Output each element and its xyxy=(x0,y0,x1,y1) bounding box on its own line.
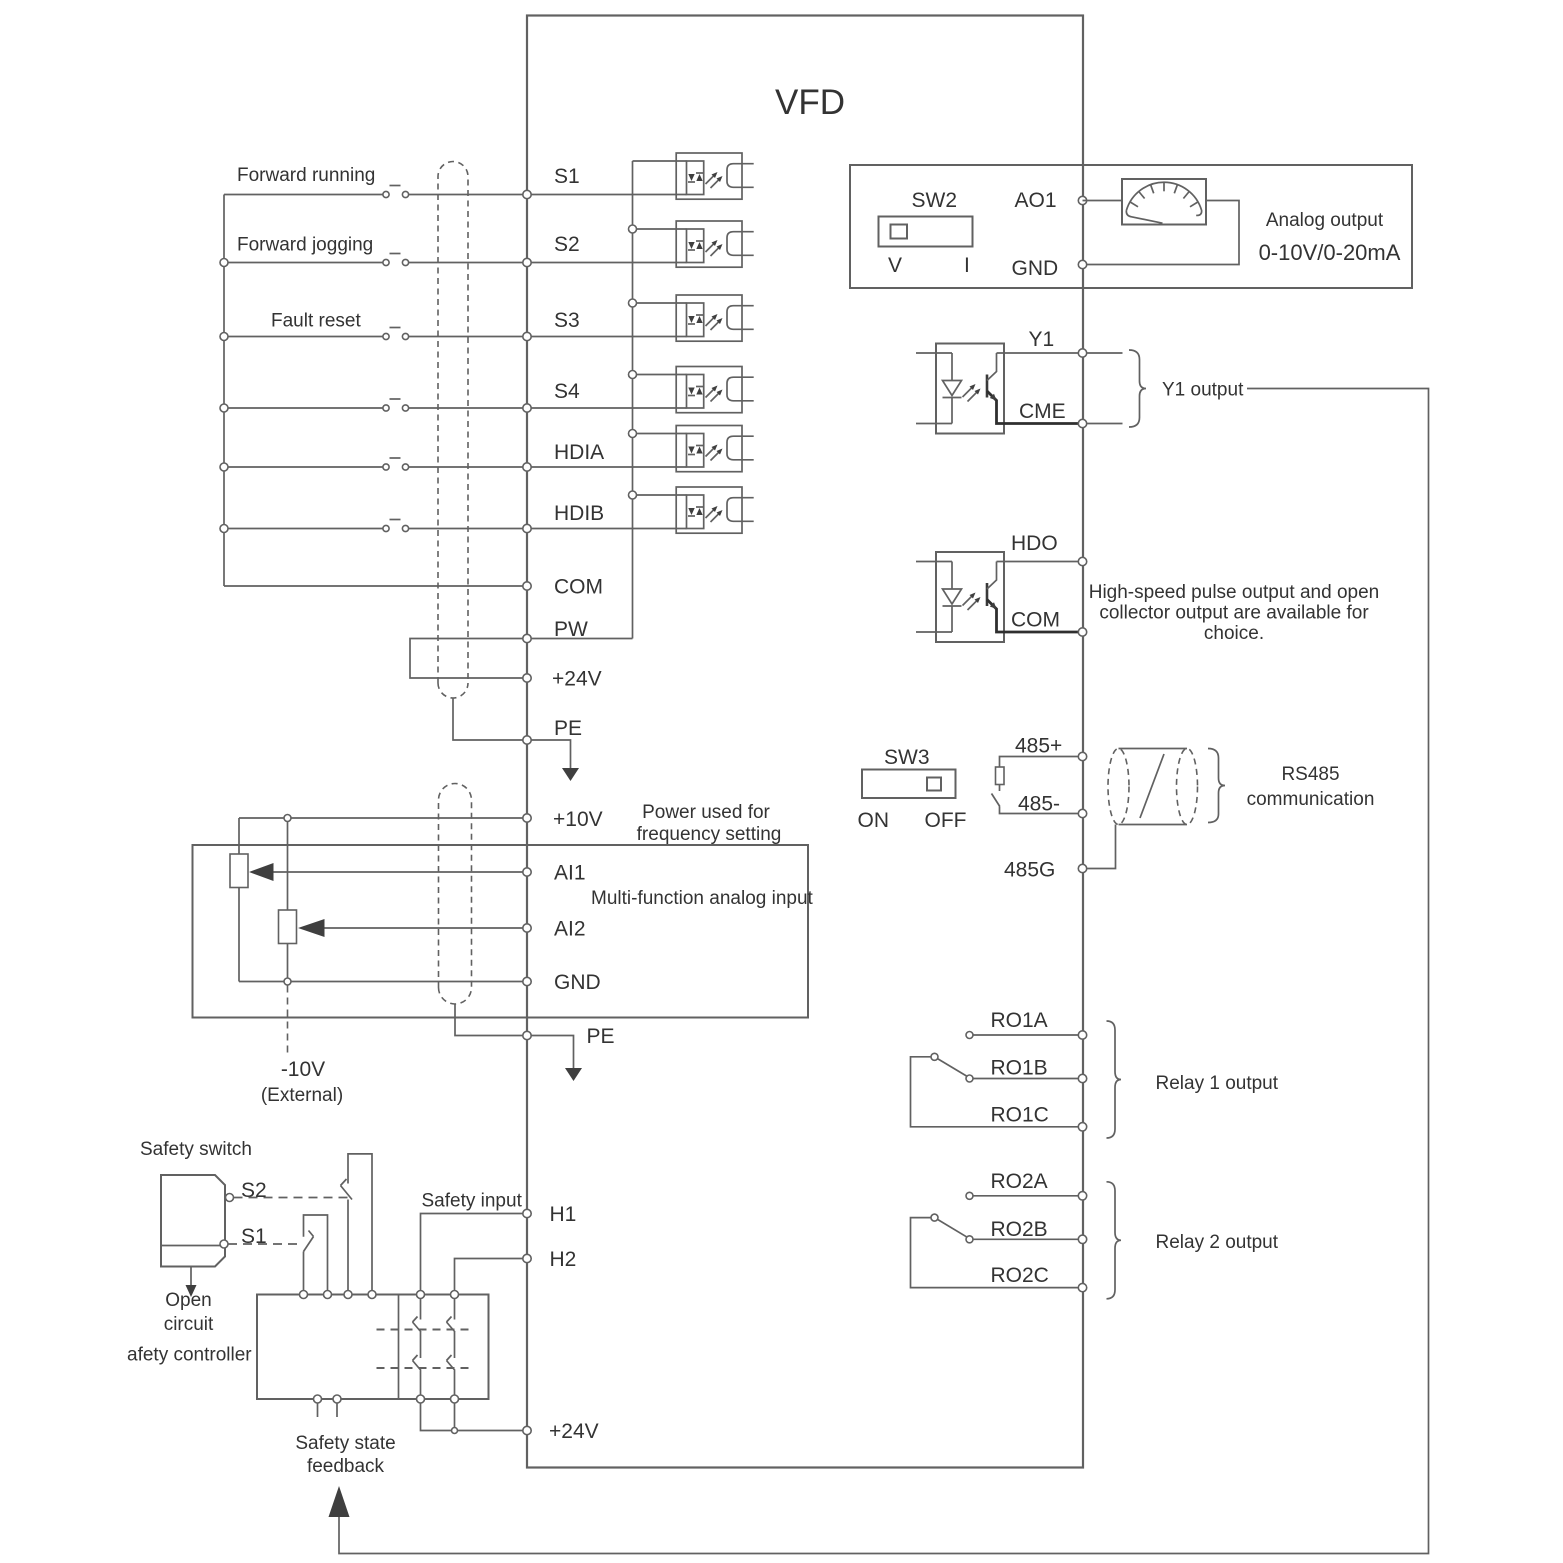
label Forward jogging xyxy=(237,235,373,256)
svg-text:High-speed pulse output and op: High-speed pulse output and open xyxy=(1089,582,1380,603)
safety switch body xyxy=(161,1175,225,1267)
analog input group box xyxy=(193,845,809,1018)
wire shield drain to PE xyxy=(453,698,527,740)
optocoupler S1 input xyxy=(633,153,754,199)
terminal 485- xyxy=(1018,793,1087,818)
VFD title xyxy=(775,83,845,122)
wire +10V row xyxy=(239,817,527,819)
svg-text:Safety switch: Safety switch xyxy=(140,1139,252,1160)
label RO2C xyxy=(991,1264,1049,1287)
svg-text:HDIB: HDIB xyxy=(554,502,604,525)
svg-text:S1: S1 xyxy=(554,165,580,188)
terminal Y1 xyxy=(1029,328,1087,357)
arrow feedback loop xyxy=(329,1486,350,1517)
label Multi-function analog input xyxy=(591,888,814,909)
label Fault reset xyxy=(271,311,361,332)
label Relay 1 output xyxy=(1156,1073,1279,1094)
svg-text:AI2: AI2 xyxy=(554,918,586,941)
svg-text:RO2C: RO2C xyxy=(991,1264,1049,1287)
svg-text:V: V xyxy=(888,254,902,277)
svg-text:485-: 485- xyxy=(1018,793,1060,816)
terminal AI2 xyxy=(523,918,586,941)
svg-text:frequency setting: frequency setting xyxy=(637,824,782,845)
ground symbol PE2 xyxy=(527,1036,582,1082)
svg-text:Safety input: Safety input xyxy=(422,1191,523,1212)
svg-text:I: I xyxy=(964,254,970,277)
svg-text:Y1: Y1 xyxy=(1029,328,1055,351)
terminal GND analog out xyxy=(1012,257,1087,280)
wire dashed to -10V external xyxy=(287,986,289,1054)
junction bus HDIA xyxy=(220,463,228,471)
svg-text:Y1 output: Y1 output xyxy=(1162,380,1244,401)
svg-text:S1: S1 xyxy=(241,1225,267,1248)
terminal +24V safety xyxy=(523,1420,599,1443)
svg-text:Forward jogging: Forward jogging xyxy=(237,235,373,256)
shield cable analog inputs xyxy=(439,784,472,1005)
relay 1 xyxy=(911,1021,1122,1138)
terminal 485+ xyxy=(1015,735,1087,761)
svg-text:AO1: AO1 xyxy=(1015,189,1057,212)
wire meter to GND xyxy=(1083,201,1240,265)
svg-text:S2: S2 xyxy=(554,233,580,256)
wire AI2 with wiper arrow xyxy=(298,919,527,937)
svg-text:485G: 485G xyxy=(1004,859,1055,882)
analog output section box xyxy=(850,165,1412,288)
switch SW3 xyxy=(858,746,967,832)
svg-text:VFD: VFD xyxy=(775,83,845,122)
optocoupler S3 input xyxy=(633,295,754,341)
wire left common bus xyxy=(223,195,225,587)
optocoupler S2 input xyxy=(633,221,754,267)
svg-text:PW: PW xyxy=(554,618,588,641)
label Safety state feedback xyxy=(295,1433,395,1477)
wire S1 dashed xyxy=(228,1243,301,1245)
wire Y1 stub xyxy=(1087,352,1123,354)
controller terminals bottom xyxy=(314,1395,459,1403)
svg-text:OFF: OFF xyxy=(925,809,967,832)
terminal PE xyxy=(523,717,582,744)
arrow open circuit xyxy=(186,1267,197,1298)
svg-text:+24V: +24V xyxy=(549,1420,599,1443)
twisted pair cable RS485 xyxy=(1108,749,1198,825)
ground symbol PE1 xyxy=(527,740,579,781)
terminal AI1 xyxy=(523,862,586,885)
dashed linkage lines xyxy=(377,1330,473,1369)
wire S1 loop with NC contact xyxy=(304,1215,328,1295)
svg-text:feedback: feedback xyxy=(307,1456,385,1477)
optocoupler HDO output xyxy=(916,552,1083,642)
svg-text:HDO: HDO xyxy=(1011,532,1058,555)
svg-text:circuit: circuit xyxy=(164,1314,214,1335)
terminal S2 safety switch xyxy=(226,1179,267,1202)
svg-text:RO2A: RO2A xyxy=(991,1170,1048,1193)
svg-text:S3: S3 xyxy=(554,309,580,332)
label Power used for frequency setting xyxy=(637,802,782,845)
wire PW to +24V jumper xyxy=(410,639,527,679)
junction opto bus S4 xyxy=(629,371,637,379)
terminal GND xyxy=(523,971,601,994)
svg-text:+24V: +24V xyxy=(552,668,602,691)
svg-text:ON: ON xyxy=(858,809,890,832)
terminal COM xyxy=(523,576,603,599)
junction opto bus HDIA xyxy=(629,430,637,438)
svg-text:(External): (External) xyxy=(261,1085,343,1106)
switch S2 row xyxy=(224,254,687,266)
terminal H1 xyxy=(523,1203,577,1226)
svg-text:Relay 2 output: Relay 2 output xyxy=(1156,1232,1279,1253)
svg-text:SW2: SW2 xyxy=(912,189,958,212)
svg-text:RO2B: RO2B xyxy=(991,1218,1048,1241)
junction GND P2 tap xyxy=(284,978,291,985)
label RO2B xyxy=(991,1218,1048,1241)
potentiometer P1 xyxy=(230,818,248,982)
svg-text:SW3: SW3 xyxy=(884,746,930,769)
switch HDIB row xyxy=(224,520,687,532)
terminal HDO xyxy=(1011,532,1087,566)
junction opto bus HDIB xyxy=(629,491,637,499)
svg-text:Safety state: Safety state xyxy=(295,1433,395,1454)
svg-text:collector output are available: collector output are available for xyxy=(1099,603,1369,624)
svg-text:HDIA: HDIA xyxy=(554,441,604,464)
svg-text:H2: H2 xyxy=(550,1248,577,1271)
label RO1B xyxy=(991,1057,1048,1080)
label -10V (External) xyxy=(261,1058,343,1106)
terminal HDIA xyxy=(523,441,604,471)
wire H2 from controller xyxy=(455,1259,528,1291)
switch S4 row xyxy=(224,399,687,411)
junction bus S3 xyxy=(220,333,228,341)
label afety controller xyxy=(127,1345,252,1366)
safety contact column 1 xyxy=(413,1299,422,1396)
svg-text:Multi-function analog input: Multi-function analog input xyxy=(591,888,814,909)
terminal S1 xyxy=(523,165,580,199)
junction opto bus S3 xyxy=(629,299,637,307)
label Open circuit xyxy=(164,1290,214,1335)
svg-text:+10V: +10V xyxy=(553,808,603,831)
terminal COM output xyxy=(1011,609,1087,637)
terminal 485G xyxy=(1004,859,1087,882)
brace RS485 xyxy=(1208,749,1225,823)
wire H1 from controller xyxy=(421,1214,528,1291)
junction bus HDIB xyxy=(220,525,228,533)
shield cable digital inputs xyxy=(438,162,468,699)
wire AI1 with wiper arrow xyxy=(249,863,527,881)
label Safety input xyxy=(422,1191,523,1212)
svg-text:Analog output: Analog output xyxy=(1266,210,1384,231)
label Forward running xyxy=(237,165,375,186)
junction bus S2 xyxy=(220,259,228,267)
svg-text:Open: Open xyxy=(165,1290,211,1311)
terminal +24V xyxy=(523,668,602,691)
wire 485G to shield xyxy=(1087,825,1116,869)
optocoupler S4 input xyxy=(633,367,754,413)
svg-text:COM: COM xyxy=(554,576,603,599)
svg-text:choice.: choice. xyxy=(1204,623,1264,644)
terminal H2 xyxy=(523,1248,577,1271)
svg-text:S2: S2 xyxy=(241,1179,267,1202)
VFD enclosure box xyxy=(527,16,1083,1468)
label RO2A xyxy=(991,1170,1048,1193)
svg-text:GND: GND xyxy=(1012,257,1059,280)
junction bus S4 xyxy=(220,404,228,412)
label Y1 output xyxy=(1162,380,1244,401)
safety controller box xyxy=(257,1295,489,1400)
svg-text:PE: PE xyxy=(554,717,582,740)
svg-text:H1: H1 xyxy=(550,1203,577,1226)
label Relay 2 output xyxy=(1156,1232,1279,1253)
optocoupler HDIA input xyxy=(633,426,754,472)
svg-text:-10V: -10V xyxy=(281,1058,325,1081)
feedback stubs xyxy=(318,1403,338,1417)
analog meter xyxy=(1122,179,1206,225)
terminal AO1 xyxy=(1015,189,1087,212)
label RS485 communication xyxy=(1247,764,1375,810)
controller terminals top xyxy=(300,1291,459,1299)
wire GND row xyxy=(239,981,527,983)
svg-text:Fault reset: Fault reset xyxy=(271,311,361,332)
wire analog shield drain to PE xyxy=(455,1004,527,1036)
switch S3 row xyxy=(224,328,687,340)
switch SW2 xyxy=(879,189,973,277)
wire CME stub xyxy=(1087,423,1123,425)
terminal S2 xyxy=(523,233,580,267)
svg-text:Forward running: Forward running xyxy=(237,165,375,186)
label Analog output 0-10V/0-20mA xyxy=(1259,210,1401,265)
svg-text:RO1A: RO1A xyxy=(991,1009,1048,1032)
junction opto bus S2 xyxy=(629,225,637,233)
wire opto common bus xyxy=(632,161,634,639)
label RO1A xyxy=(991,1009,1048,1032)
svg-text:Relay 1 output: Relay 1 output xyxy=(1156,1073,1279,1094)
optocoupler Y1 output xyxy=(916,344,1083,434)
terminal PE analog xyxy=(523,1025,615,1048)
svg-text:AI1: AI1 xyxy=(554,862,586,885)
wire S2 loop with NC contact xyxy=(341,1154,373,1295)
svg-text:0-10V/0-20mA: 0-10V/0-20mA xyxy=(1259,240,1401,265)
terminal +10V xyxy=(523,808,603,831)
svg-text:communication: communication xyxy=(1247,789,1375,810)
switch S1 row xyxy=(224,186,687,198)
svg-text:485+: 485+ xyxy=(1015,735,1062,758)
terminal PW xyxy=(523,618,588,643)
wire S2 dashed xyxy=(234,1197,348,1199)
wire Y1 output loop xyxy=(339,389,1429,1554)
svg-text:afety controller: afety controller xyxy=(127,1345,252,1366)
svg-text:RO1B: RO1B xyxy=(991,1057,1048,1080)
svg-text:GND: GND xyxy=(554,971,601,994)
svg-text:RS485: RS485 xyxy=(1281,764,1339,785)
terminal CME xyxy=(1019,400,1087,428)
label Safety switch xyxy=(140,1139,252,1160)
switch HDIA row xyxy=(224,458,687,470)
junction +10V P2 tap xyxy=(284,815,291,822)
relay 2 xyxy=(911,1182,1122,1299)
svg-text:Power used for: Power used for xyxy=(642,802,770,823)
svg-text:S4: S4 xyxy=(554,380,580,403)
resistor RS485 termination xyxy=(992,757,1083,814)
terminal HDIB xyxy=(523,502,604,533)
wire AO1 to meter xyxy=(1083,200,1123,202)
wire COM row xyxy=(224,585,527,587)
wire PW to opto bus xyxy=(527,638,633,640)
terminal S3 xyxy=(523,309,580,341)
label high-speed pulse note xyxy=(1089,582,1380,644)
svg-text:CME: CME xyxy=(1019,400,1066,423)
optocoupler HDIB input xyxy=(633,487,754,533)
label RO1C xyxy=(991,1104,1049,1127)
potentiometer P2 xyxy=(279,818,297,982)
safety contact column 2 xyxy=(447,1299,456,1396)
svg-text:COM: COM xyxy=(1011,609,1060,632)
svg-text:PE: PE xyxy=(587,1025,615,1048)
terminal S4 xyxy=(523,380,580,412)
svg-text:RO1C: RO1C xyxy=(991,1104,1049,1127)
terminal S1 safety switch xyxy=(220,1225,267,1248)
brace Y1 output xyxy=(1129,350,1146,427)
wire controller to +24V xyxy=(421,1403,528,1434)
